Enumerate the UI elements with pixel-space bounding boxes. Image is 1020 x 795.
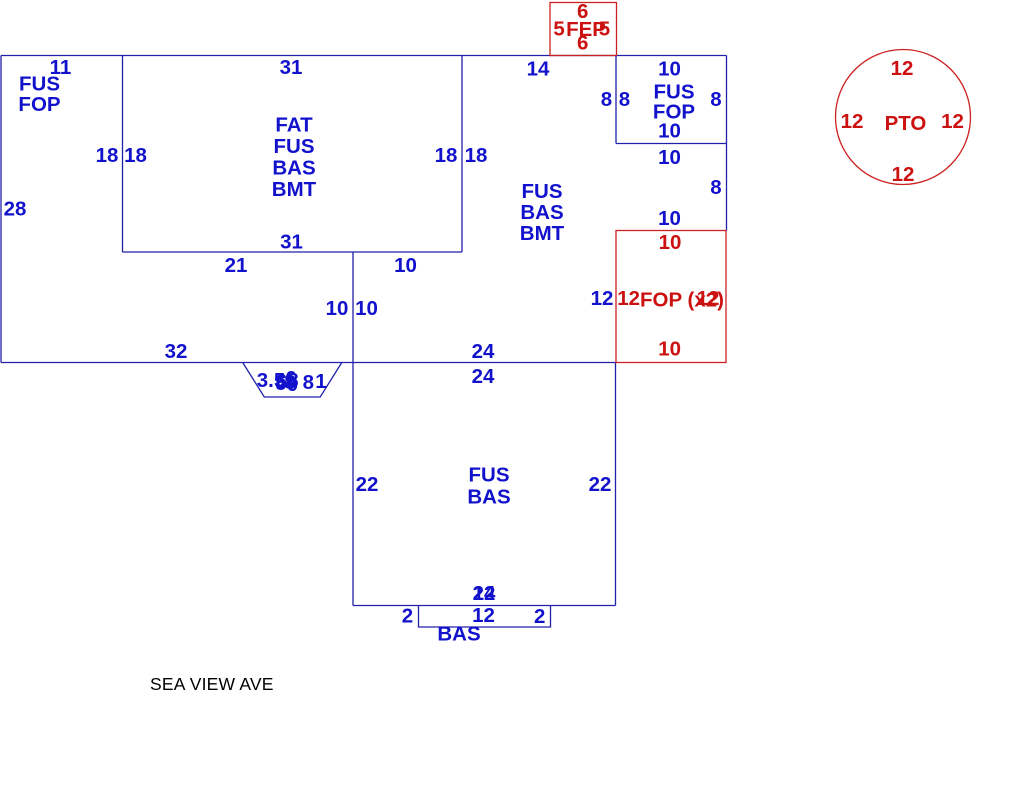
wall FUS-FOP right bbox=[726, 56, 728, 231]
svg-text:12: 12 bbox=[473, 582, 496, 605]
svg-text:12: 12 bbox=[892, 163, 915, 186]
svg-text:14: 14 bbox=[527, 58, 550, 81]
wall divider x=353 bbox=[352, 252, 354, 606]
svg-text:21: 21 bbox=[225, 254, 248, 277]
svg-text:FUS: FUS bbox=[522, 180, 563, 203]
svg-text:10: 10 bbox=[355, 297, 378, 320]
svg-text:BAS: BAS bbox=[520, 201, 563, 224]
wall inner left x=122 bbox=[122, 56, 124, 253]
wall bottom-rect bottom bbox=[353, 605, 616, 607]
svg-text:2: 2 bbox=[402, 605, 413, 628]
wall bay window trapezoid bbox=[243, 363, 342, 398]
svg-text:6: 6 bbox=[577, 32, 588, 55]
wall inner right x=462 bbox=[461, 56, 463, 253]
svg-text:FAT: FAT bbox=[275, 114, 313, 137]
svg-text:28: 28 bbox=[4, 198, 27, 221]
svg-text:12: 12 bbox=[891, 57, 914, 80]
svg-text:FUS: FUS bbox=[274, 135, 315, 158]
svg-text:12: 12 bbox=[941, 110, 964, 133]
svg-text:8: 8 bbox=[303, 371, 314, 394]
porch FOP x2 rect bbox=[616, 231, 726, 363]
svg-text:10: 10 bbox=[658, 146, 681, 169]
svg-text:18: 18 bbox=[435, 144, 458, 167]
wall FUS-FOP left bbox=[615, 56, 617, 144]
wall main top bbox=[1, 55, 727, 57]
wall BAS stoop bbox=[419, 606, 551, 628]
svg-text:5: 5 bbox=[599, 18, 610, 41]
svg-text:22: 22 bbox=[356, 473, 379, 496]
svg-text:BMT: BMT bbox=[272, 178, 317, 201]
svg-text:8: 8 bbox=[601, 88, 612, 111]
svg-text:24: 24 bbox=[472, 340, 495, 363]
svg-text:BAS: BAS bbox=[437, 623, 480, 646]
svg-text:24: 24 bbox=[472, 365, 495, 388]
svg-text:31: 31 bbox=[280, 56, 303, 79]
patio PTO circle bbox=[836, 50, 971, 185]
svg-text:10: 10 bbox=[394, 254, 417, 277]
wall main left bbox=[0, 56, 2, 363]
svg-text:BAS: BAS bbox=[467, 486, 510, 509]
svg-text:18: 18 bbox=[465, 144, 488, 167]
svg-text:22: 22 bbox=[589, 473, 612, 496]
svg-text:2: 2 bbox=[534, 605, 545, 628]
wall inner bottom y=252 bbox=[123, 251, 463, 253]
svg-text:PTO: PTO bbox=[885, 112, 927, 135]
wall bottom-rect right bbox=[615, 363, 617, 606]
svg-text:32: 32 bbox=[165, 340, 188, 363]
svg-text:BAS: BAS bbox=[272, 157, 315, 180]
svg-text:5: 5 bbox=[553, 18, 564, 41]
svg-text:SEA VIEW AVE: SEA VIEW AVE bbox=[150, 674, 274, 694]
svg-text:BMT: BMT bbox=[520, 222, 565, 245]
svg-text:12: 12 bbox=[841, 110, 864, 133]
svg-text:12: 12 bbox=[617, 287, 640, 310]
wall main bottom bbox=[1, 362, 616, 364]
svg-text:18: 18 bbox=[124, 144, 147, 167]
svg-text:10: 10 bbox=[658, 338, 681, 361]
svg-text:18: 18 bbox=[96, 144, 119, 167]
svg-text:10: 10 bbox=[658, 207, 681, 230]
svg-text:10: 10 bbox=[326, 297, 349, 320]
svg-text:10: 10 bbox=[659, 231, 682, 254]
svg-text:FUS: FUS bbox=[469, 464, 510, 487]
svg-text:FOP: FOP bbox=[18, 93, 60, 116]
svg-text:6: 6 bbox=[285, 367, 296, 390]
svg-text:10: 10 bbox=[658, 58, 681, 81]
svg-text:8: 8 bbox=[619, 88, 630, 111]
svg-text:1: 1 bbox=[315, 370, 326, 393]
svg-text:8: 8 bbox=[710, 88, 721, 111]
svg-text:8: 8 bbox=[710, 176, 721, 199]
porch FEP rect bbox=[550, 3, 617, 56]
wall FUS-FOP bottom bbox=[616, 143, 727, 145]
svg-text:12: 12 bbox=[697, 287, 720, 310]
svg-text:10: 10 bbox=[658, 120, 681, 143]
svg-text:12: 12 bbox=[591, 287, 614, 310]
svg-text:31: 31 bbox=[280, 231, 303, 254]
